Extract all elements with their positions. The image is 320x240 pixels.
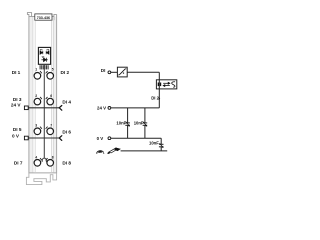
svg-text:10nF: 10nF bbox=[116, 120, 126, 125]
module body outline bbox=[29, 14, 57, 173]
DI terminal bbox=[108, 71, 111, 74]
LED right bbox=[46, 49, 49, 54]
svg-text:24 V: 24 V bbox=[11, 102, 22, 107]
fork symbol row3 bbox=[59, 136, 62, 141]
svg-text:2: 2 bbox=[35, 94, 37, 98]
svg-text:1: 1 bbox=[35, 67, 37, 71]
svg-text:6: 6 bbox=[50, 94, 52, 98]
svg-text:DI 2: DI 2 bbox=[61, 70, 70, 75]
DIN rail symbol bbox=[107, 152, 111, 155]
clamp circle 1 bbox=[34, 73, 41, 80]
LED box (optocoupler symbol) U1 bbox=[38, 47, 50, 64]
order number label box 733-436 bbox=[35, 14, 52, 20]
svg-text:DI 4: DI 4 bbox=[62, 100, 71, 105]
clamp circle 6 bbox=[47, 98, 54, 105]
clamp circle 8 bbox=[47, 160, 54, 167]
channel labels left bbox=[11, 70, 23, 166]
inner channel lines bbox=[33, 17, 54, 173]
svg-text:8: 8 bbox=[52, 156, 54, 160]
fork symbol row2 bbox=[59, 106, 62, 111]
svg-text:5: 5 bbox=[52, 67, 54, 71]
svg-text:0 V: 0 V bbox=[97, 136, 104, 141]
svg-text:DI 5: DI 5 bbox=[13, 127, 22, 132]
clamp slot ticks bbox=[40, 71, 47, 160]
earth / rail line bbox=[121, 150, 168, 152]
clamp circle 3 bbox=[34, 128, 41, 135]
24V rail bbox=[111, 107, 160, 109]
wire filter to corner bbox=[127, 71, 159, 73]
24V terminal bbox=[108, 107, 111, 110]
photodiode bbox=[41, 56, 47, 62]
svg-text:DI: DI bbox=[101, 68, 106, 73]
module side channel tint bbox=[29, 17, 33, 173]
wire end curl between clamps 4 and 8 bbox=[42, 158, 46, 162]
channel labels right bbox=[61, 70, 72, 165]
input filter box bbox=[117, 67, 127, 77]
clamp circle 4 bbox=[34, 160, 41, 167]
0V terminal bbox=[108, 137, 111, 140]
0V rail bbox=[111, 137, 161, 139]
24V feed line through module bbox=[24, 106, 28, 110]
svg-text:10nF: 10nF bbox=[149, 140, 159, 145]
clamp circle 2 bbox=[34, 98, 41, 105]
LED left bbox=[40, 49, 43, 54]
svg-text:0 V: 0 V bbox=[12, 134, 20, 139]
clamp numbers bbox=[35, 67, 53, 159]
clamp circle 5 bbox=[47, 73, 54, 80]
0V feed line through module bbox=[24, 136, 28, 140]
module latch tab top-left bbox=[27, 13, 31, 17]
svg-text:3: 3 bbox=[35, 123, 37, 127]
svg-text:7: 7 bbox=[50, 123, 52, 127]
module tab top-right bbox=[54, 14, 57, 20]
center internal wire bbox=[43, 64, 45, 158]
capacitor C3 10nF bbox=[159, 138, 164, 151]
DIN rail foot outline bbox=[26, 173, 56, 185]
clamp circle 7 bbox=[47, 128, 54, 135]
svg-text:733-436: 733-436 bbox=[37, 16, 50, 20]
rail contact icon bbox=[97, 151, 104, 153]
svg-text:DI 2: DI 2 bbox=[151, 96, 159, 101]
capacitor C2 10nF bbox=[143, 108, 148, 138]
wire DI to filter bbox=[111, 71, 118, 73]
capacitor C1 10nF bbox=[125, 108, 130, 138]
svg-text:4: 4 bbox=[35, 156, 37, 160]
svg-text:DI 7: DI 7 bbox=[14, 160, 23, 165]
svg-text:10nF: 10nF bbox=[134, 120, 144, 125]
svg-text:DI 6: DI 6 bbox=[62, 129, 71, 134]
svg-text:DI 8: DI 8 bbox=[62, 161, 71, 166]
svg-text:DI 3: DI 3 bbox=[13, 97, 22, 102]
svg-text:DI 1: DI 1 bbox=[12, 70, 21, 75]
svg-text:24 V: 24 V bbox=[97, 106, 106, 111]
wire down to 24V rail bbox=[158, 72, 160, 108]
connector finger hatch block bbox=[40, 65, 48, 69]
electronics / bus interface box bbox=[156, 80, 176, 89]
bus box internal symbols bbox=[158, 83, 159, 87]
